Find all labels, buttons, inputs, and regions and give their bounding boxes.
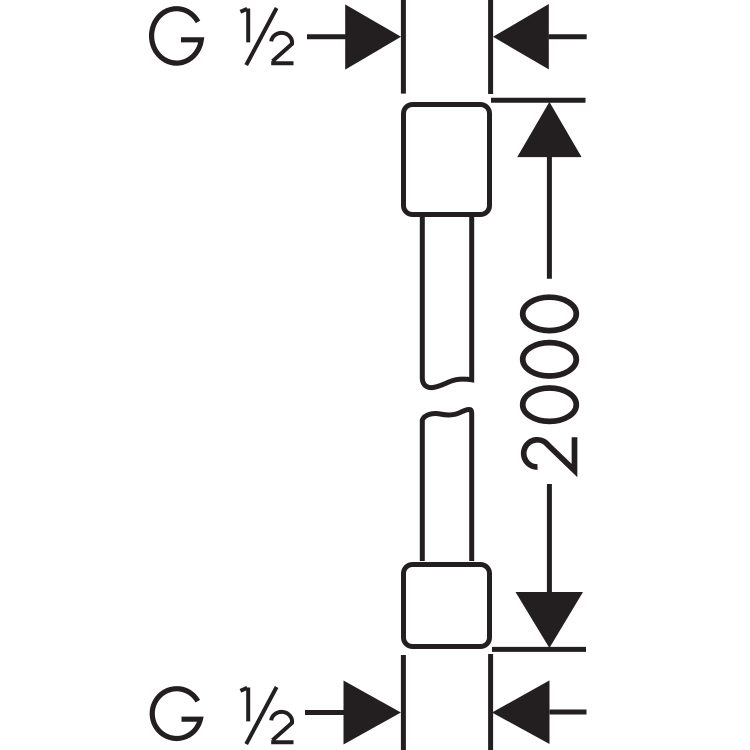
- arrow top pointing left: [493, 4, 549, 69]
- dimension line 2000 bottom horizontal: [492, 647, 586, 652]
- extension line bottom-left: [401, 655, 406, 750]
- extension line top-left: [401, 0, 406, 94]
- extension line top-right: [488, 0, 493, 94]
- letter G bottom: [152, 689, 200, 739]
- dimension line bottom-right segment: [550, 710, 587, 715]
- dimension line top-left segment: [307, 34, 346, 39]
- arrow 2000 pointing up: [517, 102, 581, 157]
- nut top (rounded rect): [404, 105, 490, 215]
- dimension line top-right segment: [549, 34, 587, 39]
- arrow 2000 pointing down: [516, 592, 584, 648]
- label 2000: digit 0 (third): [523, 297, 577, 330]
- nut bottom (rounded rect): [404, 565, 490, 647]
- dimension line 2000 top horizontal: [491, 98, 586, 103]
- label 2000 (rotated): digit 2: [523, 297, 577, 470]
- extension line bottom-right: [488, 654, 493, 750]
- dimension line 2000 vertical upper: [547, 155, 552, 279]
- label 2000: digit 0 (first): [523, 388, 577, 421]
- dimension line bottom-left segment: [305, 710, 344, 715]
- dimension line 2000 vertical lower: [547, 484, 552, 594]
- hose upper segment with wavy break end: [422, 217, 471, 388]
- arrow bottom pointing left: [492, 680, 550, 744]
- fraction 1/2 bottom: [240, 687, 293, 744]
- arrow top pointing right: [345, 4, 401, 69]
- arrow bottom pointing right: [344, 681, 401, 745]
- label 2000: digit 0 (second): [523, 343, 577, 376]
- fraction 1/2 top: [240, 8, 293, 65]
- hose lower segment with wavy break start: [422, 409, 471, 561]
- letter G top: [152, 9, 202, 63]
